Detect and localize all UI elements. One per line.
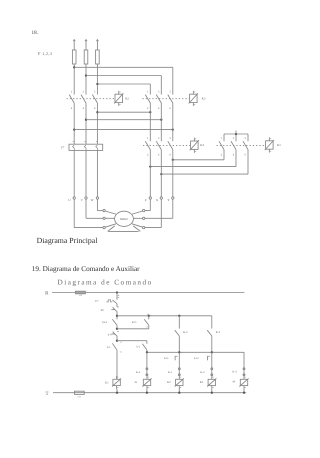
svg-text:k2.1: k2.1 (164, 357, 169, 360)
wire d6 to T (243, 389, 245, 393)
svg-text:K-4: K-4 (136, 371, 141, 374)
label R (45, 291, 49, 297)
node cross K3-6 (172, 128, 174, 130)
label k2.1 lower (164, 357, 169, 360)
svg-text:W: W (91, 198, 94, 202)
label F7 comando (95, 300, 99, 303)
wire main k22-node2 (116, 325, 118, 329)
distribution wire (147, 351, 244, 353)
svg-text:13: 13 (120, 341, 122, 344)
label b1 (107, 346, 111, 349)
node bus L2 tap (85, 74, 87, 76)
svg-text:Z: Z (145, 198, 147, 202)
svg-text:Diagrama Principal: Diagrama Principal (37, 236, 99, 245)
wire K1 pole6 to x line (161, 150, 248, 175)
node cross L2 (85, 119, 87, 121)
node cross K3-2 (149, 111, 151, 113)
node 1 (116, 315, 118, 317)
coil K4 (190, 138, 199, 153)
wire w to motor (74, 199, 103, 227)
contact K4 aux (146, 368, 148, 376)
node K2 branch tap (178, 315, 180, 317)
svg-text:T: T (45, 391, 48, 397)
fuse F10 (75, 291, 85, 297)
label K4 (200, 143, 204, 147)
wire d6 col lower (243, 375, 245, 376)
svg-text:K2: K2 (125, 96, 129, 100)
terminal circle x (160, 197, 162, 199)
label b0 (108, 333, 112, 336)
wire K2coil to T (178, 389, 180, 393)
label k2.1 (132, 321, 137, 324)
svg-text:k2.2: k2.2 (194, 357, 199, 360)
motor lead rt (132, 211, 142, 214)
wire K2 pole2 down (73, 103, 75, 144)
wire z column (149, 150, 151, 197)
svg-text:14: 14 (146, 325, 148, 328)
label k2.2 lower (194, 357, 199, 360)
contact K-2 (175, 330, 180, 352)
motor terminal circle left top (103, 209, 105, 211)
node K3-T (211, 392, 213, 394)
contactor K4 pole 1-2 (145, 137, 150, 156)
label F 1,2,3 fuse designator (38, 51, 52, 56)
wire cross 1 (97, 111, 150, 113)
wire bus L3 to K3 pole 1 (97, 84, 150, 95)
fuse F21 (75, 391, 85, 398)
wire y column (172, 150, 174, 197)
wire W column (96, 150, 98, 196)
label K3 (202, 96, 206, 100)
motor lead rm (133, 217, 142, 219)
wire bus L2 to K3 pole 3 (86, 76, 161, 95)
label T (45, 391, 48, 397)
node y join (172, 159, 174, 161)
label K2 (125, 96, 129, 100)
star bridge wire (224, 134, 248, 141)
node K1-T (116, 392, 118, 394)
svg-text:18.: 18. (32, 30, 38, 36)
contactor K2 pole 5-6 (92, 91, 97, 110)
wire K2 pole6 down (96, 103, 98, 144)
branch wire node1 (117, 315, 212, 317)
label x (156, 198, 159, 202)
label K2 interlock (200, 371, 205, 374)
label u (68, 198, 71, 202)
node bus L3 tap (96, 83, 98, 85)
overload NC contact F7 (106, 295, 119, 303)
wire K3coil to T (211, 389, 213, 393)
svg-text:14: 14 (120, 351, 122, 354)
contactor K4 pole 5-6 (168, 137, 173, 156)
svg-text:K-3: K-3 (168, 371, 173, 374)
contactor K4 pole 3-4 (156, 137, 161, 156)
svg-text:K-2: K-2 (183, 331, 188, 334)
seal contact k2.1 (117, 313, 149, 329)
wire main b1-coil (116, 350, 118, 379)
wire z to motor (145, 199, 150, 210)
coil d1 (142, 376, 151, 389)
fuse F1 (72, 50, 76, 64)
fuse F2 (84, 50, 88, 64)
pushbutton S0 NC (111, 307, 119, 312)
motor terminal circle left bot (103, 226, 105, 228)
pushbutton b1 NO (112, 341, 121, 353)
svg-text:k2.2: k2.2 (102, 321, 107, 324)
contactor K2 pole 3-4 (81, 91, 86, 110)
wire d1 col upper (146, 352, 148, 368)
contactor K2 pole 1-2 (69, 91, 74, 110)
label b-1 parallel (137, 346, 141, 349)
wire main S0-node1 (116, 312, 118, 319)
svg-text:k2.1: k2.1 (132, 321, 137, 324)
contact K3 interlock (178, 368, 180, 376)
wire v to motor (86, 199, 103, 218)
label v (81, 198, 84, 202)
motor terminal circle right bot (143, 226, 145, 228)
terminal circle u (73, 197, 75, 199)
svg-text:13: 13 (147, 313, 149, 316)
node K2-T (178, 392, 180, 394)
heading item number 18 (32, 30, 38, 36)
wire bus L1 to K3 pole 5 (74, 67, 173, 94)
contactor K1 pole 1-2 (219, 137, 224, 156)
wire L3 below fuse (96, 64, 98, 95)
node K2 col (178, 351, 180, 353)
contactor K3 pole 1-2 (145, 91, 150, 110)
label K-3 (216, 331, 221, 334)
timer contact k2.2 lower (208, 356, 211, 360)
wire main top (116, 293, 118, 300)
wire main b0-node3 (116, 336, 118, 340)
actuator dashed link K3 (143, 98, 190, 100)
node d6-T (243, 392, 245, 394)
node d1-T (146, 392, 148, 394)
terminal circle v (85, 197, 87, 199)
rail T (53, 392, 246, 394)
svg-text:K2: K2 (167, 381, 171, 384)
wire K3col mid (211, 352, 213, 368)
label w (91, 198, 94, 202)
label K-2 (183, 331, 188, 334)
wire U column (73, 150, 75, 196)
svg-text:Motor: Motor (120, 217, 128, 221)
actuator dashed link K4 (143, 144, 190, 146)
coil K3 comando (207, 376, 216, 389)
terminal circle w (96, 197, 98, 199)
node z join (149, 165, 151, 167)
coil K1 star (265, 137, 274, 152)
timer contact k2.1 lower (175, 356, 178, 360)
contactor K3 pole 3-4 (156, 91, 161, 110)
svg-text:F21: F21 (78, 395, 81, 398)
svg-text:K4: K4 (200, 143, 204, 147)
svg-text:Diagrama de Comando: Diagrama de Comando (58, 278, 153, 286)
terminal circle y (172, 197, 174, 199)
supply lead L2 (85, 39, 87, 50)
wire branch elbow to K-3 (211, 316, 213, 329)
motor lead lm (105, 217, 114, 219)
wire x to motor (145, 199, 161, 227)
node cross L1 (73, 128, 75, 130)
svg-text:F 1,2,3: F 1,2,3 (38, 51, 52, 56)
svg-text:K-4: K-4 (232, 371, 237, 374)
wire node3 branch (117, 340, 147, 342)
label z (145, 198, 147, 202)
node x join (160, 173, 162, 175)
node star point (235, 131, 237, 136)
wire d1 to T (146, 389, 148, 393)
node cross L3 (96, 111, 98, 113)
svg-text:F7: F7 (61, 145, 65, 149)
node main at R rail (116, 291, 118, 293)
wire K2 pole4 down (85, 103, 87, 144)
heading 19 Diagrama de Comando e Auxiliar (32, 265, 140, 273)
label K3 comando (200, 381, 204, 384)
wire cross 3 (74, 129, 173, 131)
supply lead L1 (73, 39, 75, 50)
coil K1 comando (112, 376, 121, 389)
label d6 (232, 381, 235, 384)
motor lead lb (105, 224, 116, 227)
contactor K3 pole 5-6 (168, 91, 173, 110)
wire main F7-S0 (116, 304, 118, 307)
label S0 (101, 309, 105, 312)
svg-text:K-3: K-3 (216, 331, 221, 334)
wire x column (160, 150, 162, 197)
motor base (108, 226, 141, 232)
label K4 right (232, 371, 237, 374)
wire L2 below fuse (85, 64, 87, 95)
wire V column (85, 150, 87, 196)
motor terminal circle right mid (143, 217, 145, 219)
node seal tap (148, 315, 150, 317)
contact k2.2 (112, 319, 117, 325)
label F7 (61, 145, 65, 149)
wire coilK1 to T (116, 389, 118, 393)
label K1 comando (105, 381, 109, 384)
terminal circle z (149, 197, 151, 199)
motor M1 (115, 211, 134, 226)
wire d1 col lower (146, 375, 148, 376)
motor lead rb (132, 224, 143, 227)
node cross K3-4 (160, 119, 162, 121)
svg-text:K1: K1 (105, 381, 109, 384)
contactor K1 pole 5-6 (243, 137, 248, 156)
coil K2 (114, 91, 123, 106)
motor lead lt (105, 211, 116, 214)
coil K2 comando (175, 376, 184, 389)
contact K4 right (243, 368, 245, 376)
pushbutton b0 NC (111, 332, 119, 337)
wire u to motor (97, 199, 103, 210)
coil K3 (189, 91, 198, 106)
actuator dashed link K1 (217, 144, 266, 146)
title Diagrama de Comando (58, 278, 153, 286)
contact K-3 (207, 330, 212, 352)
label K4 aux (136, 371, 141, 374)
wire K1 pole4 to z line (150, 150, 236, 167)
node bus L1 tap (73, 66, 75, 68)
label K3 interlock (168, 371, 173, 374)
wire L1 below fuse (73, 64, 75, 95)
node d1 col (146, 351, 148, 353)
wire branch to K-2 (178, 316, 180, 329)
wire cross 2 (86, 119, 161, 121)
wire K3-K4 col3 (172, 103, 174, 141)
svg-text:K-2: K-2 (200, 371, 205, 374)
contact b-1 parallel (142, 341, 147, 353)
wire y to motor (145, 199, 173, 218)
overload relay F7 (69, 142, 103, 151)
svg-text:19. Diagrama de Comando e Auxi: 19. Diagrama de Comando e Auxiliar (32, 265, 140, 273)
svg-text:K1: K1 (277, 143, 281, 147)
wire K2col mid (178, 352, 180, 368)
supply lead L3 (96, 39, 98, 50)
wire K1 pole2 to y line (173, 150, 224, 160)
rail R (52, 292, 244, 294)
contact K2 interlock (211, 368, 213, 376)
svg-text:K3: K3 (200, 381, 204, 384)
wire K3-K4 col1 (149, 103, 151, 141)
caption Diagrama Principal (37, 236, 99, 245)
wire K2col lower (178, 375, 180, 376)
wire K3col lower (211, 375, 213, 376)
contactor K1 pole 3-4 (231, 137, 236, 156)
svg-text:K3: K3 (202, 96, 206, 100)
coil d6 (239, 376, 248, 389)
svg-text:b-1: b-1 (107, 346, 111, 349)
label K1 (277, 143, 281, 147)
wire d6 col upper (243, 352, 245, 368)
wire K3-K4 col2 (160, 103, 162, 141)
motor terminal circle left mid (103, 217, 105, 219)
actuator dashed link K2 (67, 98, 115, 100)
node 2 (116, 328, 118, 330)
node K3 col (211, 351, 213, 353)
fuse F3 (96, 50, 100, 64)
label k2.2 (102, 321, 107, 324)
label y (167, 198, 170, 202)
label d1 (135, 381, 138, 384)
label K2 comando (167, 381, 171, 384)
node 3 (116, 340, 118, 342)
motor terminal circle right top (143, 209, 145, 211)
